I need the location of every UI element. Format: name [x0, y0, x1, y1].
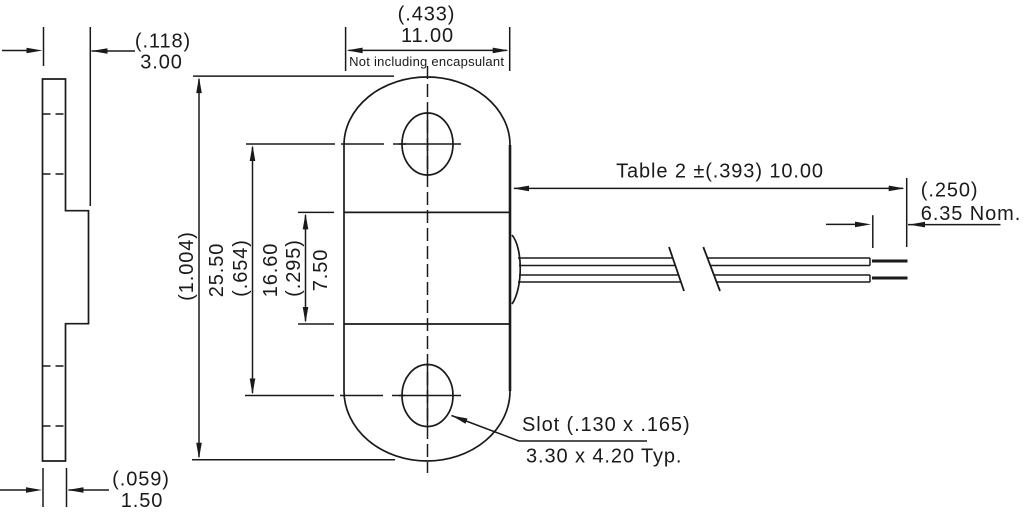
- svg-text:3.30 x 4.20 Typ.: 3.30 x 4.20 Typ.: [526, 446, 682, 468]
- svg-text:(1.004): (1.004): [176, 231, 198, 301]
- svg-text:(.295): (.295): [283, 239, 305, 297]
- svg-text:(.059): (.059): [112, 469, 170, 491]
- svg-text:(.118): (.118): [135, 31, 191, 53]
- svg-text:(.654): (.654): [230, 239, 252, 297]
- svg-text:25.50: 25.50: [206, 243, 228, 298]
- svg-text:16.60: 16.60: [260, 243, 282, 298]
- svg-text:(.433): (.433): [398, 4, 456, 26]
- svg-text:Slot (.130 x .165): Slot (.130 x .165): [522, 414, 691, 436]
- svg-text:Not including encapsulant: Not including encapsulant: [349, 54, 504, 69]
- svg-text:(.250): (.250): [921, 180, 979, 202]
- svg-text:Table 2 ±(.393) 10.00: Table 2 ±(.393) 10.00: [616, 161, 824, 183]
- svg-text:7.50: 7.50: [310, 249, 332, 292]
- svg-text:6.35 Nom.: 6.35 Nom.: [921, 203, 1021, 225]
- svg-text:1.50: 1.50: [121, 490, 164, 512]
- svg-text:11.00: 11.00: [401, 25, 454, 47]
- svg-text:3.00: 3.00: [140, 52, 183, 74]
